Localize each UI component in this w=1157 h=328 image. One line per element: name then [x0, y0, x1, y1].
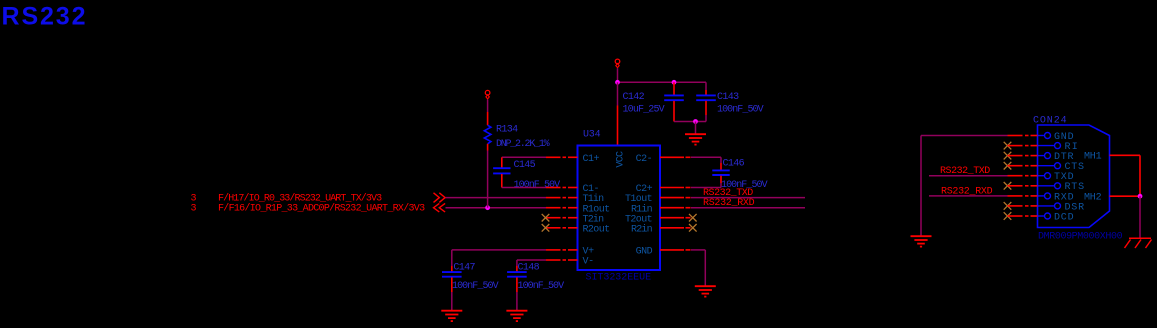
ground	[685, 134, 706, 144]
page ref 3	[191, 193, 197, 204]
label C147	[453, 263, 475, 274]
junction	[1138, 194, 1143, 199]
svg-text:DMR009PM000XH00: DMR009PM000XH00	[1038, 231, 1123, 242]
pin label DTR	[1054, 152, 1073, 163]
pin stub T1out	[660, 197, 691, 199]
resistor R134	[484, 125, 491, 144]
capacitor C142	[664, 82, 684, 121]
pin label R2in	[631, 223, 653, 235]
wire	[487, 144, 489, 151]
no-connect DTR	[1004, 152, 1012, 160]
pin stub RXD	[1008, 195, 1038, 197]
pin CTS	[1038, 163, 1061, 169]
net label RS232_TXD	[940, 166, 990, 177]
wire C1+	[502, 156, 546, 158]
pin label T2in	[583, 213, 605, 225]
net label RS232_RXD	[941, 186, 993, 197]
pin stub DSR	[1008, 205, 1038, 207]
pin stub R2out	[546, 227, 578, 229]
op-amp U1 box SIT3232	[578, 146, 661, 271]
ground	[695, 286, 716, 296]
pin stub R1out	[546, 207, 578, 209]
pin RI	[1038, 143, 1061, 149]
pin stub GND	[1008, 135, 1038, 137]
svg-text:100nF_50V: 100nF_50V	[717, 104, 764, 115]
off-page connector RX	[434, 203, 446, 212]
wire RS232_TXD	[691, 197, 805, 199]
wire	[487, 100, 489, 113]
svg-text:GND: GND	[636, 247, 653, 258]
chassis ground	[1125, 238, 1152, 248]
pin label T1in	[583, 193, 605, 205]
off-page connector TX	[434, 193, 446, 203]
pin stub C2+	[660, 187, 691, 189]
pin stub T2in	[546, 217, 578, 219]
wire GND net	[921, 136, 1008, 236]
pin label R2out	[583, 224, 610, 235]
svg-text:100nF_50V: 100nF_50V	[514, 180, 561, 191]
wire R1out	[446, 207, 547, 209]
svg-text:C1+: C1+	[583, 154, 600, 165]
part number DMR009PM000XH00	[1038, 231, 1123, 242]
svg-text:C143: C143	[717, 92, 739, 103]
value 100nF_50V	[721, 180, 768, 191]
pin label V-	[583, 257, 594, 268]
svg-text:CON24: CON24	[1033, 115, 1067, 126]
title RS232	[2, 3, 86, 31]
wire	[618, 81, 707, 83]
wire	[487, 112, 489, 125]
svg-text:DCD: DCD	[1054, 212, 1074, 223]
wire MH1	[1110, 154, 1141, 156]
svg-text:R2in: R2in	[631, 223, 653, 235]
ground	[506, 311, 527, 321]
pin stub R2in	[660, 227, 691, 229]
page ref 3	[191, 204, 197, 215]
pin label RTS	[1065, 182, 1085, 193]
wire T1in	[446, 197, 547, 199]
wire	[695, 122, 697, 134]
pin stub CTS	[1008, 165, 1038, 167]
svg-text:R2out: R2out	[583, 224, 610, 235]
net label RS232_UART_TX	[218, 192, 382, 204]
no-connect R2in	[689, 224, 697, 232]
pin label DCD	[1054, 212, 1074, 223]
pin label RI	[1065, 142, 1078, 153]
label U34	[583, 129, 601, 140]
no-connect T2out	[689, 214, 697, 222]
value DNP_2.2K_1%	[496, 139, 550, 150]
pin label R1in	[631, 203, 653, 215]
net label RS232_RXD	[703, 198, 755, 209]
junction	[485, 205, 490, 210]
pin stub C1+	[546, 156, 578, 158]
label C143	[717, 92, 739, 103]
no-connect RTS	[1004, 182, 1012, 190]
pin label TXD	[1054, 172, 1074, 183]
svg-text:C147: C147	[453, 263, 475, 274]
svg-text:RS232: RS232	[2, 3, 86, 31]
value 100nF_50V	[452, 281, 499, 292]
pin stub TXD	[1008, 175, 1038, 177]
no-connect R2out	[542, 224, 550, 232]
svg-text:C146: C146	[723, 158, 745, 169]
wire	[617, 82, 619, 105]
pin stub DTR	[1008, 155, 1038, 157]
wire C2-	[691, 156, 721, 158]
pin label C2+	[636, 184, 653, 195]
net label RS232_UART_RX	[218, 203, 425, 215]
wire MH2	[1110, 195, 1141, 197]
pin stub T1in	[546, 197, 578, 199]
connector CON24 outline	[1038, 125, 1110, 228]
wire	[674, 121, 706, 123]
pin stub RTS	[1008, 185, 1038, 187]
capacitor C143	[696, 82, 716, 121]
svg-text:10uF_25V: 10uF_25V	[623, 104, 665, 115]
pin label T1out	[625, 194, 652, 205]
pin label T2out	[625, 214, 652, 225]
pin stub C1-	[546, 187, 578, 189]
pin label R1out	[583, 204, 610, 215]
pin stub DCD	[1008, 215, 1038, 217]
svg-text:MH2: MH2	[1084, 193, 1102, 204]
capacitor C145	[493, 157, 510, 187]
part number SIT3232EEUE	[586, 272, 652, 283]
wire RS232_TXD net	[929, 175, 1008, 177]
no-connect DSR	[1004, 202, 1012, 210]
wire C1-	[502, 187, 546, 189]
capacitor C147	[442, 250, 462, 310]
pin stub V-	[546, 259, 578, 261]
ground	[441, 311, 462, 321]
svg-text:3: 3	[191, 204, 197, 215]
pin label VCC	[616, 151, 627, 168]
svg-text:C142: C142	[623, 92, 645, 103]
svg-text:C145: C145	[514, 160, 536, 171]
pin label DSR	[1065, 202, 1085, 213]
capacitor C148	[507, 260, 527, 310]
wire VCC pin stub	[617, 106, 619, 146]
net label RS232_TXD	[703, 188, 753, 199]
pin label V+	[583, 247, 595, 258]
pin DTR	[1038, 153, 1051, 159]
pin label C1+	[583, 154, 600, 165]
svg-text:RS232_RXD: RS232_RXD	[703, 198, 755, 209]
power symbol VCC	[615, 59, 620, 67]
pin stub T2out	[660, 217, 691, 219]
junction	[615, 80, 620, 85]
wire RS232_RXD net	[929, 195, 1008, 197]
value 10uF_25V	[623, 104, 665, 115]
pin TXD	[1038, 173, 1051, 179]
label C145	[514, 160, 536, 171]
wire	[1139, 155, 1141, 196]
power symbol R134	[485, 90, 490, 99]
no-connect DCD	[1004, 212, 1012, 220]
label R134	[496, 125, 518, 136]
svg-text:R134: R134	[496, 125, 518, 136]
wire V+	[452, 249, 546, 251]
pin DSR	[1038, 203, 1061, 209]
pin stub RI	[1008, 145, 1038, 147]
svg-text:VCC: VCC	[616, 151, 627, 168]
wire GND	[691, 250, 705, 286]
pin GND	[1038, 133, 1051, 139]
pin DCD	[1038, 213, 1051, 219]
svg-text:100nF_50V: 100nF_50V	[518, 281, 565, 292]
label C146	[723, 158, 745, 169]
value 100nF_50V	[514, 180, 561, 191]
junction	[693, 119, 698, 124]
pin label MH1	[1084, 152, 1102, 163]
wire V-	[517, 259, 546, 261]
pin label CTS	[1065, 162, 1084, 173]
value 100nF_50V	[518, 281, 565, 292]
pin label GND	[1054, 132, 1074, 143]
pin label RXD	[1054, 192, 1074, 203]
pin stub V+	[546, 249, 578, 251]
wire RS232_RXD	[691, 207, 805, 209]
label CON24	[1033, 115, 1067, 126]
svg-text:V-: V-	[583, 257, 594, 268]
pin stub GND	[660, 249, 691, 251]
wire	[1139, 196, 1141, 237]
wire	[487, 151, 489, 208]
no-connect CTS	[1004, 162, 1012, 170]
svg-text:MH1: MH1	[1084, 152, 1102, 163]
svg-text:RS232_RXD: RS232_RXD	[941, 186, 993, 197]
pin stub C2-	[660, 156, 691, 158]
svg-text:F/F16/IO_R1P_33_ADC0P/RS232_UA: F/F16/IO_R1P_33_ADC0P/RS232_UART_RX/3V3	[218, 203, 425, 215]
svg-text:DNP_2.2K_1%: DNP_2.2K_1%	[496, 139, 550, 150]
pin label MH2	[1084, 193, 1102, 204]
label C148	[518, 263, 540, 274]
pin RTS	[1038, 183, 1061, 189]
wire C2+	[691, 187, 721, 189]
svg-text:C2-: C2-	[636, 154, 652, 165]
capacitor C146	[712, 157, 729, 187]
pin stub R1in	[660, 207, 691, 209]
pin RXD	[1038, 193, 1051, 199]
svg-text:C148: C148	[518, 263, 540, 274]
pin label C1-	[583, 184, 599, 195]
label C142	[623, 92, 645, 103]
svg-text:100nF_50V: 100nF_50V	[452, 281, 499, 292]
no-connect T2in	[542, 214, 550, 222]
svg-text:RS232_TXD: RS232_TXD	[940, 166, 990, 177]
svg-text:SIT3232EEUE: SIT3232EEUE	[586, 272, 652, 283]
wire	[617, 68, 619, 82]
pin label GND	[636, 247, 653, 258]
no-connect RI	[1004, 142, 1012, 150]
ground	[911, 236, 932, 246]
value 100nF_50V	[717, 104, 764, 115]
svg-text:U34: U34	[583, 129, 601, 140]
pin label C2-	[636, 154, 652, 165]
junction	[672, 80, 677, 85]
